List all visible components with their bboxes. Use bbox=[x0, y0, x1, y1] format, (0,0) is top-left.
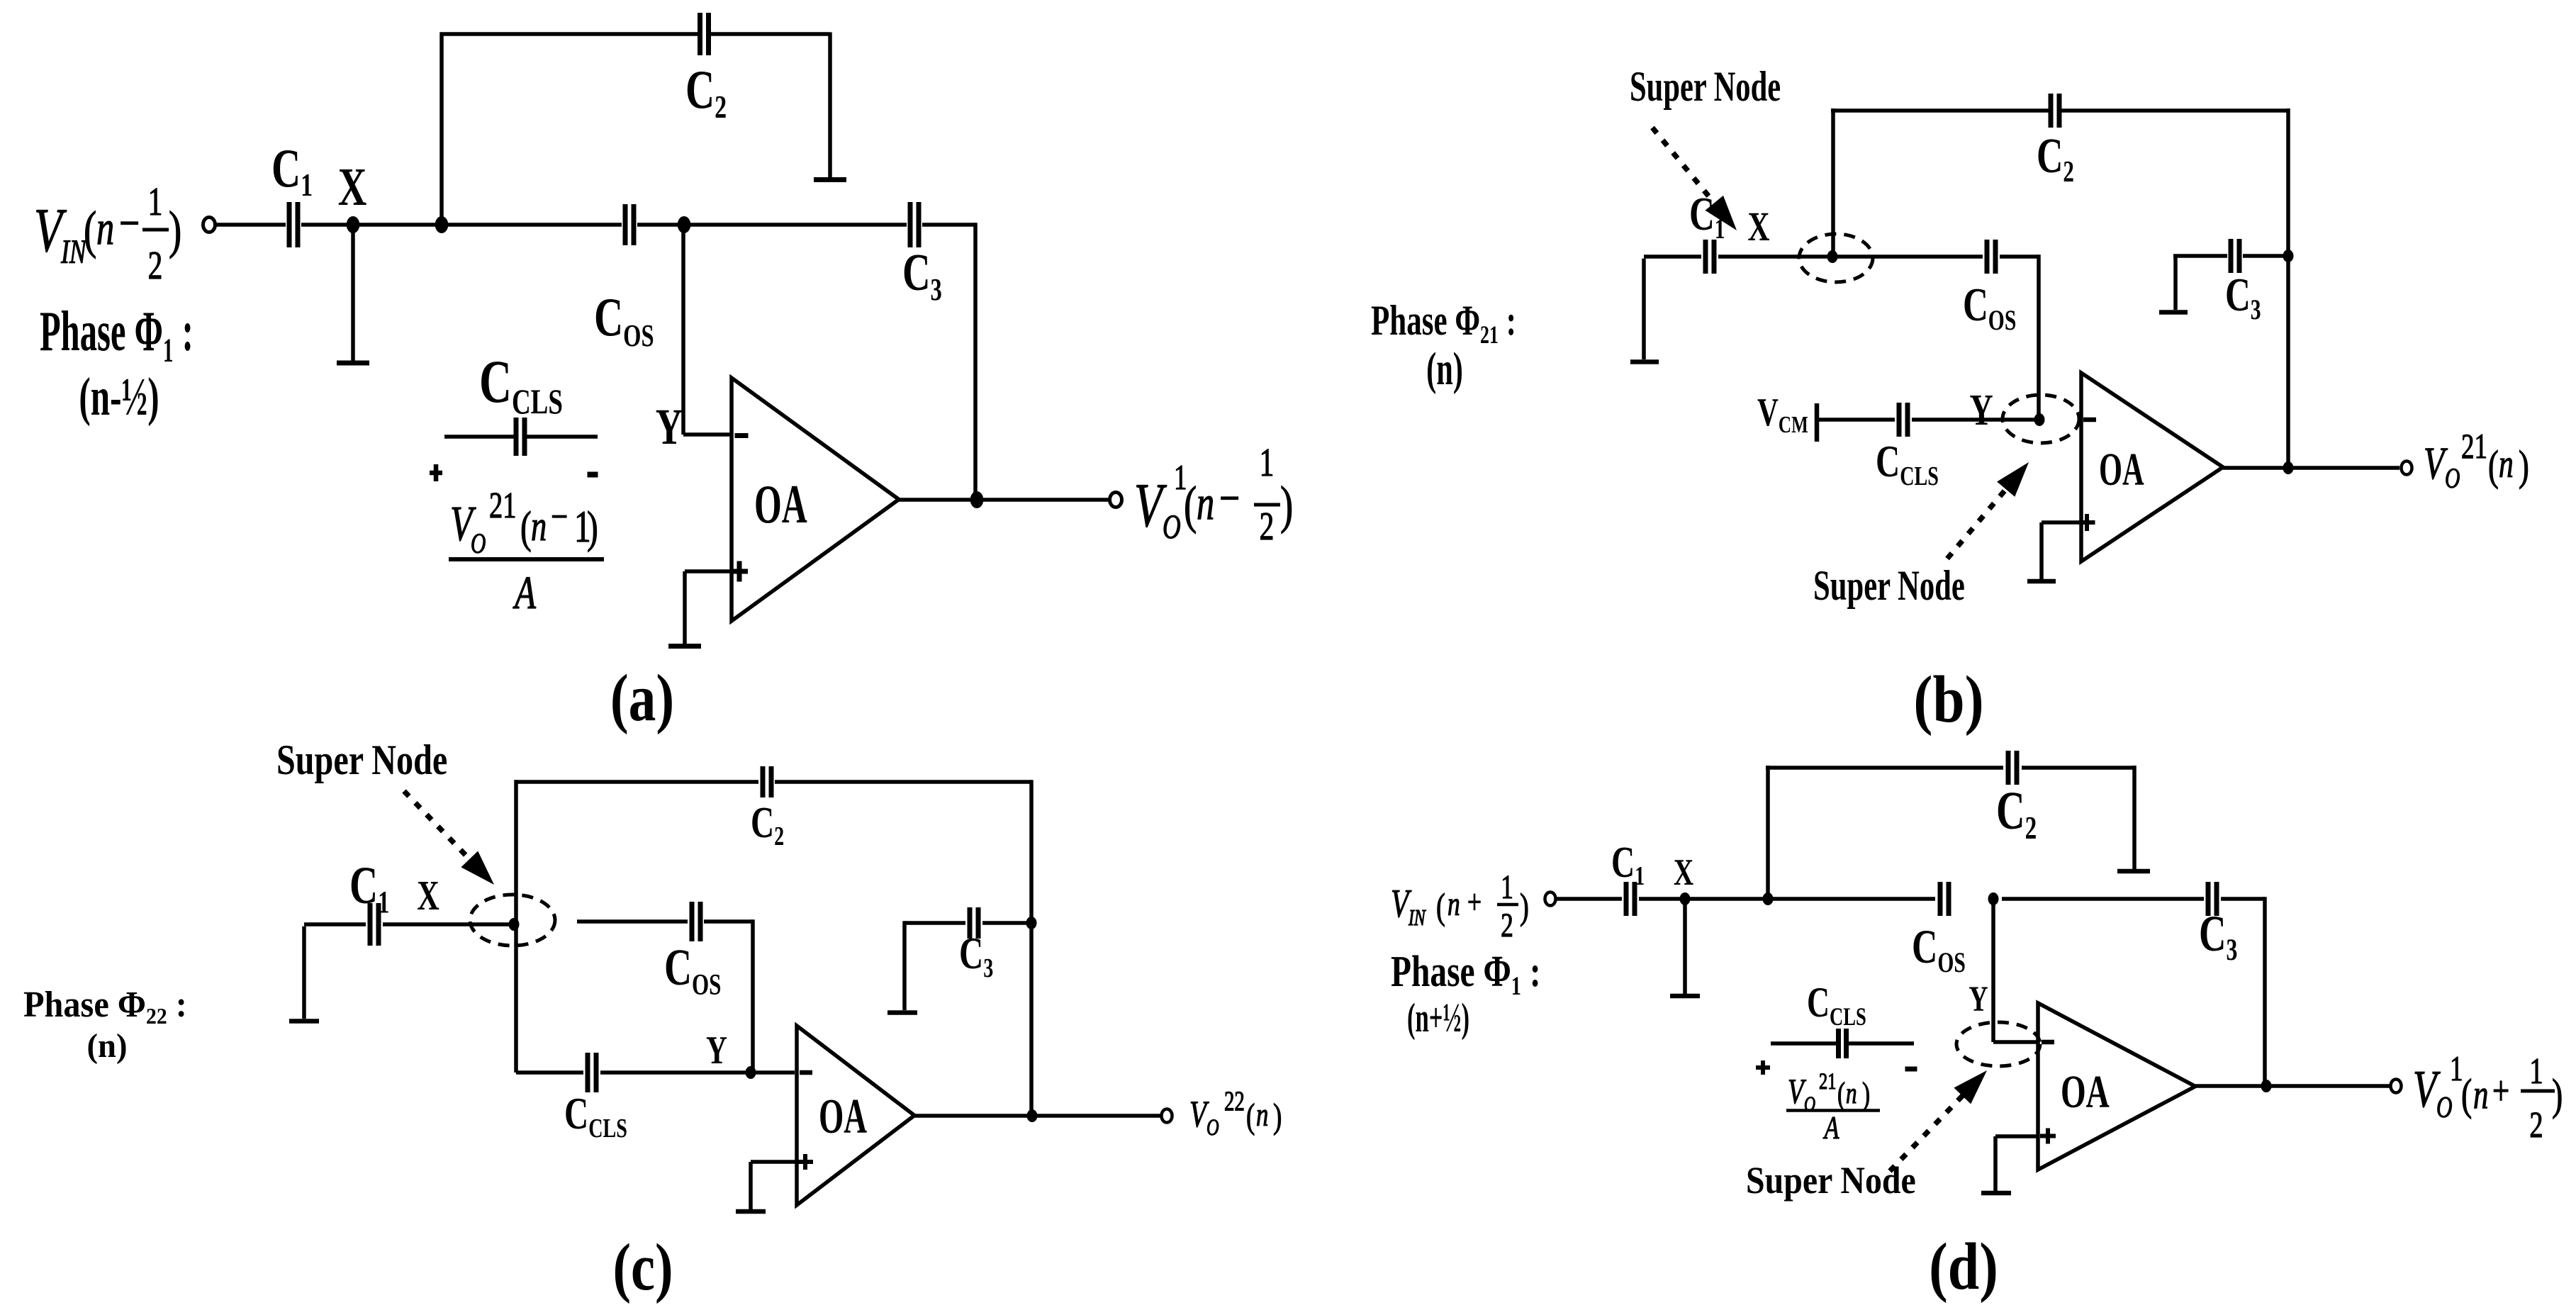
wire input to C1 (a) bbox=[216, 223, 286, 227]
wire C3 to right corner (d) bbox=[2221, 897, 2265, 901]
node Y junction dot (b) bbox=[2034, 413, 2045, 426]
label C3 (c) bbox=[959, 929, 993, 983]
fraction bar over A (d) bbox=[1786, 1109, 1880, 1112]
wire C2 to right corner (b) bbox=[2061, 108, 2288, 113]
label Super Node (c) bbox=[276, 737, 447, 784]
wire right vertical down (b) bbox=[2286, 108, 2290, 468]
capacitor C3 (b) bbox=[2229, 239, 2234, 273]
svg-text:(n): (n) bbox=[1426, 342, 1463, 395]
capacitor CCLS (d) bbox=[1836, 1029, 1841, 1058]
wire junction up to C2 (d) bbox=[1766, 766, 1770, 899]
wire VCM to CCLS (b) bbox=[1817, 418, 1895, 422]
svg-text:(: ( bbox=[1436, 885, 1445, 926]
junction dot to C2 branch (d) bbox=[1763, 892, 1774, 905]
label OA (b) bbox=[2099, 443, 2144, 496]
svg-text:Y: Y bbox=[706, 1028, 727, 1073]
wire C1 through X to COS (b) bbox=[1718, 254, 1983, 259]
svg-text:n: n bbox=[1197, 476, 1214, 530]
label VO21 output voltage (b) bbox=[2424, 427, 2529, 494]
label C1 (a) bbox=[271, 138, 313, 203]
svg-text:n: n bbox=[531, 503, 547, 550]
label Super Node (d) bbox=[1746, 1160, 1916, 1202]
wire CCLS right plate lead (a) bbox=[525, 435, 598, 439]
svg-text:(d): (d) bbox=[1929, 1229, 1998, 1304]
svg-text:(n): (n) bbox=[87, 1027, 128, 1065]
svg-text:−: − bbox=[551, 495, 568, 540]
label node Y (c) bbox=[706, 1028, 727, 1073]
output terminal (a) bbox=[1110, 493, 1122, 508]
op-amp OA triangle (a) bbox=[732, 378, 899, 621]
capacitor CCLS (a) bbox=[514, 418, 519, 456]
label C1 (d) bbox=[1611, 837, 1645, 891]
wire right vertical down (c) bbox=[1029, 780, 1034, 1116]
open terminal bar below C3 stub (b) bbox=[2159, 310, 2188, 315]
label CCLS (b) bbox=[1876, 437, 1939, 491]
svg-text:(: ( bbox=[84, 201, 96, 259]
opamp plus sign (d) bbox=[2040, 1134, 2056, 1138]
label VO1 output voltage (d) bbox=[2413, 1049, 2563, 1146]
dashed ellipse around X node (c) bbox=[470, 895, 555, 946]
ground bar below plus (a) bbox=[668, 644, 701, 649]
svg-text:O: O bbox=[2436, 1090, 2452, 1124]
wire CCLS left plate lead (a) bbox=[444, 435, 516, 439]
wire X stub down (a) bbox=[351, 225, 355, 361]
node C3 right vertical (b) bbox=[2283, 250, 2294, 262]
svg-text:1: 1 bbox=[148, 179, 163, 224]
svg-text:O: O bbox=[471, 528, 486, 559]
open terminal bar below X (a) bbox=[337, 361, 369, 366]
wire top left to C2 (a) bbox=[440, 32, 698, 36]
svg-text:(: ( bbox=[2461, 1070, 2472, 1119]
svg-text:+: + bbox=[2492, 1069, 2509, 1114]
label C2 (c) bbox=[751, 797, 784, 851]
wire left to C1 (b) bbox=[1644, 254, 1701, 259]
wire C2 to right corner (c) bbox=[775, 780, 1031, 784]
wire top to C2 (b) bbox=[1831, 108, 2049, 113]
wire C3 down to output (a) bbox=[973, 223, 978, 500]
ground bar below plus (c) bbox=[736, 1209, 766, 1214]
wire opamp plus input (b) bbox=[2042, 520, 2081, 525]
fraction bar of VIN(n+1/2) (d) bbox=[1497, 903, 1518, 907]
label Super Node upper (b) bbox=[1630, 64, 1781, 111]
output node dot (d) bbox=[2261, 1080, 2272, 1092]
label C3 (a) bbox=[902, 244, 942, 307]
CCLS plus polarity (d) bbox=[1756, 1065, 1770, 1070]
svg-text:OA: OA bbox=[2061, 1065, 2110, 1118]
wire CCLS to opamp minus (c) bbox=[600, 1070, 795, 1075]
svg-text:2: 2 bbox=[1501, 907, 1513, 944]
svg-text:X: X bbox=[338, 157, 367, 217]
label node X (b) bbox=[1748, 205, 1770, 250]
wire CCLS left plate lead (d) bbox=[1771, 1041, 1836, 1046]
svg-text:): ) bbox=[1862, 1076, 1870, 1112]
svg-text:Super Node: Super Node bbox=[1746, 1160, 1916, 1202]
label C3 (b) bbox=[2225, 268, 2261, 325]
capacitor C3 (d) bbox=[2206, 882, 2211, 916]
label Super Node lower (b) bbox=[1813, 563, 1965, 610]
opamp minus sign (a) bbox=[735, 433, 749, 438]
op-amp OA triangle (c) bbox=[797, 1026, 914, 1205]
wire COS to C3 (a) bbox=[637, 223, 907, 227]
wire left to C1 (c) bbox=[304, 922, 366, 926]
label VO1 output voltage (a) bbox=[1134, 440, 1293, 549]
wire C1 to X node (c) bbox=[383, 922, 512, 926]
caption (b) bbox=[1913, 662, 1983, 737]
dashed ellipse around Y node (d) bbox=[1956, 1022, 2040, 1066]
wire C3 stub down (c) bbox=[902, 921, 907, 1010]
label OA (d) bbox=[2061, 1065, 2110, 1118]
svg-text:A: A bbox=[513, 566, 537, 619]
wire opamp output (b) bbox=[2223, 466, 2399, 470]
wire C3 stub left (c) bbox=[905, 921, 965, 925]
node after COS (a) bbox=[678, 216, 691, 233]
wire top to C2 (c) bbox=[515, 780, 759, 784]
label CCLS (c) bbox=[564, 1089, 627, 1143]
label Phase Phi1 (d) bbox=[1391, 946, 1541, 1041]
wire CCLS right plate lead (d) bbox=[1849, 1041, 1914, 1046]
fraction bar of VIN(n-1/2) (a) bbox=[142, 228, 169, 232]
wire C2 to right corner (a) bbox=[711, 32, 830, 36]
capacitor C1 (a) bbox=[287, 202, 292, 247]
wire junction up to C2 (a) bbox=[439, 33, 444, 225]
label A denominator (d) bbox=[1822, 1109, 1839, 1146]
label VIN input voltage (d) bbox=[1391, 868, 1529, 944]
svg-text:21: 21 bbox=[489, 484, 516, 525]
output node dot (c) bbox=[1027, 1109, 1038, 1122]
label node Y (a) bbox=[656, 398, 683, 455]
open terminal bar left input (b) bbox=[1630, 359, 1659, 364]
svg-text:X: X bbox=[1674, 851, 1694, 893]
ground bar below plus (b) bbox=[2027, 579, 2056, 584]
wire opamp output (c) bbox=[914, 1114, 1160, 1118]
input terminal (d) bbox=[1545, 892, 1556, 906]
svg-text:(: ( bbox=[1837, 1076, 1845, 1112]
label OA (a) bbox=[754, 474, 807, 534]
label VIN input voltage (a) bbox=[34, 179, 181, 288]
CCLS minus polarity (a) bbox=[588, 472, 598, 478]
wire left stub up (c) bbox=[302, 926, 306, 1019]
svg-text:(a): (a) bbox=[610, 661, 674, 735]
svg-text:1: 1 bbox=[2529, 1050, 2543, 1091]
dashed arrow to Y super node (d) bbox=[1890, 1088, 1970, 1171]
wire X stub down (d) bbox=[1683, 899, 1687, 994]
op-amp OA triangle (d) bbox=[2038, 1003, 2195, 1170]
dashed arrow to Y super node (b) bbox=[1947, 481, 2012, 559]
svg-text:22: 22 bbox=[1224, 1086, 1245, 1116]
wire COS stub left (c) bbox=[577, 919, 688, 924]
caption (d) bbox=[1929, 1229, 1998, 1304]
label node X (c) bbox=[417, 873, 439, 919]
dashed ellipse around X node (b) bbox=[1799, 234, 1873, 282]
wire after COS to C3 (d) bbox=[2002, 897, 2204, 901]
wire opamp output (d) bbox=[2195, 1084, 2390, 1088]
svg-text:2: 2 bbox=[1260, 504, 1275, 549]
label C1 (b) bbox=[1689, 187, 1725, 245]
label CCLS (a) bbox=[479, 349, 563, 421]
svg-text:n: n bbox=[1256, 1096, 1268, 1133]
node after COS (d) bbox=[1988, 892, 1999, 905]
svg-text:): ) bbox=[1520, 885, 1529, 926]
wire opamp plus input (a) bbox=[685, 569, 732, 573]
svg-text:Y: Y bbox=[1969, 979, 1988, 1019]
node X junction dot (d) bbox=[1680, 892, 1691, 905]
capacitor COS (d) bbox=[1938, 882, 1943, 916]
wire top to C2 (d) bbox=[1766, 766, 2003, 770]
svg-text:(: ( bbox=[2488, 443, 2499, 490]
svg-text:1: 1 bbox=[1260, 440, 1275, 485]
fraction bar of VO1 output (a) bbox=[1254, 503, 1280, 507]
node X junction dot (c) bbox=[509, 918, 520, 931]
label COS (d) bbox=[1912, 920, 1966, 978]
svg-text:Y: Y bbox=[656, 398, 683, 455]
svg-text:n: n bbox=[2473, 1073, 2488, 1118]
capacitor C1 (d) bbox=[1624, 882, 1629, 916]
wire plus input down (a) bbox=[683, 571, 687, 644]
wire plus input down (c) bbox=[749, 1162, 753, 1209]
open terminal bar below C3 stub (c) bbox=[887, 1010, 917, 1015]
wire C3 down to output (d) bbox=[2263, 897, 2267, 1086]
wire opamp plus input (c) bbox=[751, 1160, 797, 1164]
wire C3 to right vertical (c) bbox=[982, 921, 1031, 925]
svg-text:): ) bbox=[1273, 1097, 1282, 1136]
op-amp OA triangle (b) bbox=[2081, 373, 2223, 561]
svg-text:): ) bbox=[1280, 476, 1293, 534]
opamp minus sign (d) bbox=[2042, 1040, 2054, 1045]
node X junction dot (a) bbox=[347, 216, 360, 233]
wire X vertical top to CCLS row (c) bbox=[514, 780, 518, 1073]
label OA (c) bbox=[819, 1090, 867, 1144]
wire C2 right down stub (d) bbox=[2132, 766, 2137, 869]
input terminal (a) bbox=[203, 218, 215, 233]
svg-text:(: ( bbox=[1246, 1097, 1255, 1136]
label COS (c) bbox=[664, 939, 721, 1001]
label VO21(n-1)/A residue fraction (a) bbox=[450, 484, 598, 559]
wire X up to top (b) bbox=[1831, 108, 1835, 257]
output node dot (a) bbox=[970, 491, 984, 508]
svg-text:+: + bbox=[1467, 883, 1482, 921]
caption (c) bbox=[612, 1230, 673, 1304]
wire CCLS to Y (b) bbox=[1912, 418, 2037, 422]
capacitor C2 (d) bbox=[2006, 751, 2011, 785]
wire COS node down to Y (a) bbox=[681, 225, 685, 435]
output terminal (b) bbox=[2402, 461, 2412, 475]
dashed arrow to X super node (b) bbox=[1652, 128, 1721, 211]
wire COS to corner (b) bbox=[2000, 254, 2039, 259]
svg-text:OA: OA bbox=[2099, 443, 2144, 496]
svg-text:1: 1 bbox=[1501, 868, 1513, 906]
wire COS corner down to Y (b) bbox=[2037, 254, 2041, 420]
svg-text:OA: OA bbox=[819, 1090, 867, 1144]
wire Y to opamp minus (d) bbox=[1993, 1040, 2038, 1044]
capacitor C2 (b) bbox=[2049, 94, 2054, 128]
wire C3 stub left (b) bbox=[2173, 254, 2227, 258]
dashed ellipse around Y node (b) bbox=[2003, 395, 2079, 443]
wire C3 stub down (b) bbox=[2173, 256, 2178, 310]
label A denominator (a) bbox=[513, 566, 537, 619]
label COS (b) bbox=[1963, 278, 2016, 336]
svg-text:(: ( bbox=[520, 503, 532, 552]
svg-text:(n+½): (n+½) bbox=[1407, 996, 1469, 1041]
svg-text:(b): (b) bbox=[1913, 662, 1983, 737]
label C2 (a) bbox=[685, 60, 727, 125]
capacitor C2 (c) bbox=[761, 766, 766, 797]
label C2 (d) bbox=[1996, 781, 2037, 846]
wire opamp output (a) bbox=[899, 498, 1109, 502]
label COS (a) bbox=[594, 287, 654, 353]
dashed arrow to X super node (c) bbox=[404, 791, 477, 867]
output node dot (b) bbox=[2283, 461, 2294, 474]
node X junction dot (b) bbox=[1827, 250, 1838, 263]
opamp plus sign (c) bbox=[797, 1160, 813, 1164]
ground bar below plus (d) bbox=[1981, 1191, 2011, 1196]
svg-text:Super Node: Super Node bbox=[276, 737, 447, 784]
wire left stub up (b) bbox=[1642, 259, 1646, 359]
wire C1 through X to COS (d) bbox=[1639, 897, 1935, 901]
label node Y (b) bbox=[1969, 385, 1993, 434]
label VO22 output voltage (c) bbox=[1189, 1086, 1282, 1141]
label node X (a) bbox=[338, 157, 367, 217]
node Y junction dot (c) bbox=[746, 1066, 756, 1079]
output terminal (d) bbox=[2391, 1080, 2402, 1093]
svg-text:2: 2 bbox=[148, 243, 163, 288]
wire opamp plus input (d) bbox=[1995, 1134, 2038, 1138]
node C3 right vertical (c) bbox=[1026, 917, 1037, 929]
fraction bar of VO1 output (d) bbox=[2521, 1090, 2555, 1093]
svg-text:X: X bbox=[1748, 205, 1770, 250]
wire C3 to right vertical (b) bbox=[2243, 254, 2288, 258]
open terminal bar right of C2 (d) bbox=[2117, 869, 2150, 874]
label node Y (d) bbox=[1969, 979, 1988, 1019]
svg-text:): ) bbox=[2552, 1070, 2563, 1119]
VCM terminal bar (b) bbox=[1815, 403, 1820, 442]
wire input to C1 (d) bbox=[1557, 897, 1622, 901]
svg-text:Super Node: Super Node bbox=[1630, 64, 1781, 111]
label Phase Phi21 (b) bbox=[1371, 298, 1516, 395]
svg-text:Y: Y bbox=[1969, 385, 1993, 434]
svg-text:X: X bbox=[417, 873, 439, 919]
open terminal bar left input (c) bbox=[289, 1019, 319, 1024]
svg-text:O: O bbox=[1206, 1115, 1219, 1141]
junction dot to C2 branch (a) bbox=[435, 216, 449, 233]
capacitor COS (a) bbox=[623, 204, 628, 245]
opamp minus sign (c) bbox=[800, 1070, 812, 1075]
wire C2 right down stub (a) bbox=[828, 33, 832, 178]
svg-text:): ) bbox=[2519, 443, 2529, 490]
wire COS corner down to Y (c) bbox=[751, 919, 755, 1073]
capacitor C3 (c) bbox=[968, 907, 973, 939]
svg-text:A: A bbox=[1822, 1109, 1839, 1146]
svg-text:(n-½): (n-½) bbox=[79, 367, 159, 427]
open terminal bar below X (d) bbox=[1670, 994, 1700, 999]
wire Y to opamp minus (a) bbox=[683, 432, 732, 437]
capacitor CCLS (b) bbox=[1897, 403, 1902, 437]
label Phase Phi22 (c) bbox=[23, 983, 187, 1065]
svg-text:n: n bbox=[96, 201, 114, 254]
wire plus input down (d) bbox=[1993, 1136, 1998, 1193]
open terminal bar right of C2 (a) bbox=[814, 177, 846, 182]
fraction bar over A (a) bbox=[449, 557, 604, 561]
svg-text:21: 21 bbox=[2461, 427, 2487, 466]
svg-text:(c): (c) bbox=[612, 1230, 673, 1304]
output terminal (c) bbox=[1162, 1109, 1172, 1123]
wire COS stub right (c) bbox=[704, 919, 753, 924]
opamp minus sign (b) bbox=[2083, 418, 2096, 422]
wire C3 to right corner (a) bbox=[922, 223, 975, 227]
opamp plus sign (a) bbox=[731, 569, 748, 574]
capacitor COS (c) bbox=[690, 902, 695, 941]
svg-text:IN: IN bbox=[1408, 906, 1426, 931]
label CCLS (d) bbox=[1807, 980, 1866, 1031]
label VO21(n)/A residue fraction (d) bbox=[1788, 1069, 1870, 1116]
label node X (d) bbox=[1674, 851, 1694, 893]
svg-text:O: O bbox=[1163, 508, 1181, 546]
svg-text:2: 2 bbox=[2529, 1104, 2543, 1145]
wire C2 to right corner (d) bbox=[2022, 766, 2134, 770]
svg-text:n: n bbox=[1447, 885, 1460, 923]
svg-text:): ) bbox=[169, 201, 181, 259]
svg-text:−: − bbox=[119, 196, 140, 251]
svg-text:OA: OA bbox=[754, 474, 807, 534]
svg-text:n: n bbox=[2499, 442, 2514, 486]
svg-text:(: ( bbox=[1184, 476, 1197, 534]
label C1 (c) bbox=[349, 856, 389, 919]
wire CCLS row left (c) bbox=[516, 1070, 583, 1075]
caption (a) bbox=[610, 661, 674, 735]
svg-text:n: n bbox=[1846, 1076, 1857, 1109]
CCLS plus polarity (a) bbox=[430, 471, 442, 476]
label C2 (b) bbox=[2037, 129, 2074, 188]
CCLS minus polarity (d) bbox=[1905, 1067, 1917, 1072]
svg-text:): ) bbox=[587, 503, 598, 552]
wire COS node down to Y (d) bbox=[1991, 899, 1995, 1042]
wire C1 to COS (a) bbox=[301, 223, 622, 227]
label Phase Phi1 (a) bbox=[40, 301, 194, 427]
capacitor COS (b) bbox=[1985, 240, 1990, 274]
label VCM (b) bbox=[1757, 390, 1808, 438]
capacitor C3 (a) bbox=[908, 202, 913, 247]
capacitor C1 (b) bbox=[1703, 240, 1708, 274]
capacitor C1 (c) bbox=[368, 903, 373, 946]
svg-text:O: O bbox=[2445, 463, 2460, 494]
svg-text:21: 21 bbox=[1819, 1069, 1836, 1095]
svg-text:Super Node: Super Node bbox=[1813, 563, 1965, 610]
opamp plus sign (b) bbox=[2079, 520, 2095, 525]
label C3 (d) bbox=[2199, 905, 2237, 967]
wire plus input down (b) bbox=[2039, 522, 2044, 579]
capacitor CCLS (c) bbox=[586, 1053, 590, 1092]
capacitor C2 (a) bbox=[698, 13, 702, 55]
svg-text:−: − bbox=[1219, 471, 1240, 526]
